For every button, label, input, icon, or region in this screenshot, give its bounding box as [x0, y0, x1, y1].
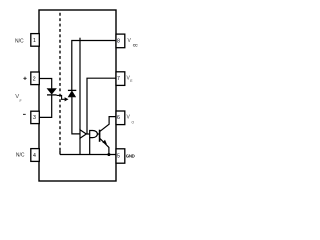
- wire photodiode anode to amp input: [72, 97, 80, 134]
- transistor emitter: [100, 139, 109, 155]
- wire gate ground: [89, 138, 91, 155]
- wire amp output to transistor base: [86, 133, 99, 135]
- light arrow: [57, 95, 65, 99]
- svg-text:CC: CC: [133, 43, 138, 47]
- pin 3 box: [31, 111, 40, 123]
- wire LED cathode to pin3: [39, 95, 52, 118]
- wire VCC to amp top: [79, 38, 81, 130]
- transistor collector to pin6: [100, 117, 116, 132]
- svg-text:F: F: [20, 99, 22, 103]
- transistor Q1 base bar: [99, 130, 101, 142]
- svg-text:6: 6: [117, 115, 120, 121]
- svg-text:E: E: [130, 79, 133, 83]
- svg-text:3: 3: [33, 115, 36, 121]
- package body U1: [39, 10, 116, 181]
- photodiode cathode bar: [68, 89, 76, 91]
- wire amp ground: [79, 138, 81, 154]
- pin 7 box: [116, 72, 125, 86]
- pin 3 label minus: [23, 113, 26, 115]
- svg-text:V: V: [127, 115, 131, 121]
- svg-text:8: 8: [117, 39, 120, 45]
- svg-text:7: 7: [117, 76, 120, 82]
- LED cathode bar: [47, 94, 57, 96]
- svg-text:4: 4: [33, 153, 36, 159]
- gate G1: [90, 131, 98, 138]
- wire shield to GND rail: [59, 150, 61, 154]
- pin 5 box: [116, 149, 125, 163]
- svg-text:V: V: [128, 38, 132, 44]
- junction emitter-GND: [107, 153, 110, 156]
- pin 4 box: [31, 149, 40, 162]
- wire pin7 enable: [87, 78, 116, 134]
- pin 8 box: [116, 34, 125, 48]
- svg-text:N/C: N/C: [15, 38, 24, 44]
- svg-text:N/C: N/C: [16, 153, 25, 159]
- svg-text:5: 5: [117, 153, 120, 159]
- photodiode D2: [68, 91, 75, 97]
- pin 2 label +: [23, 77, 26, 80]
- op-amp A1: [80, 130, 86, 139]
- emitter arrowhead: [102, 140, 107, 145]
- GND rail wire: [60, 154, 116, 156]
- pin 2 box: [31, 72, 40, 85]
- LED D1: [47, 89, 56, 95]
- wire pin2 to LED anode: [39, 79, 52, 89]
- wire pin8 VCC rail: [72, 41, 116, 91]
- pin 6 box: [116, 111, 125, 125]
- pin 1 box: [31, 34, 40, 47]
- svg-text:GND: GND: [126, 153, 135, 158]
- isolation shield (dashed): [59, 13, 61, 151]
- svg-text:2: 2: [33, 76, 36, 82]
- svg-text:O: O: [132, 120, 135, 124]
- svg-text:1: 1: [33, 38, 36, 44]
